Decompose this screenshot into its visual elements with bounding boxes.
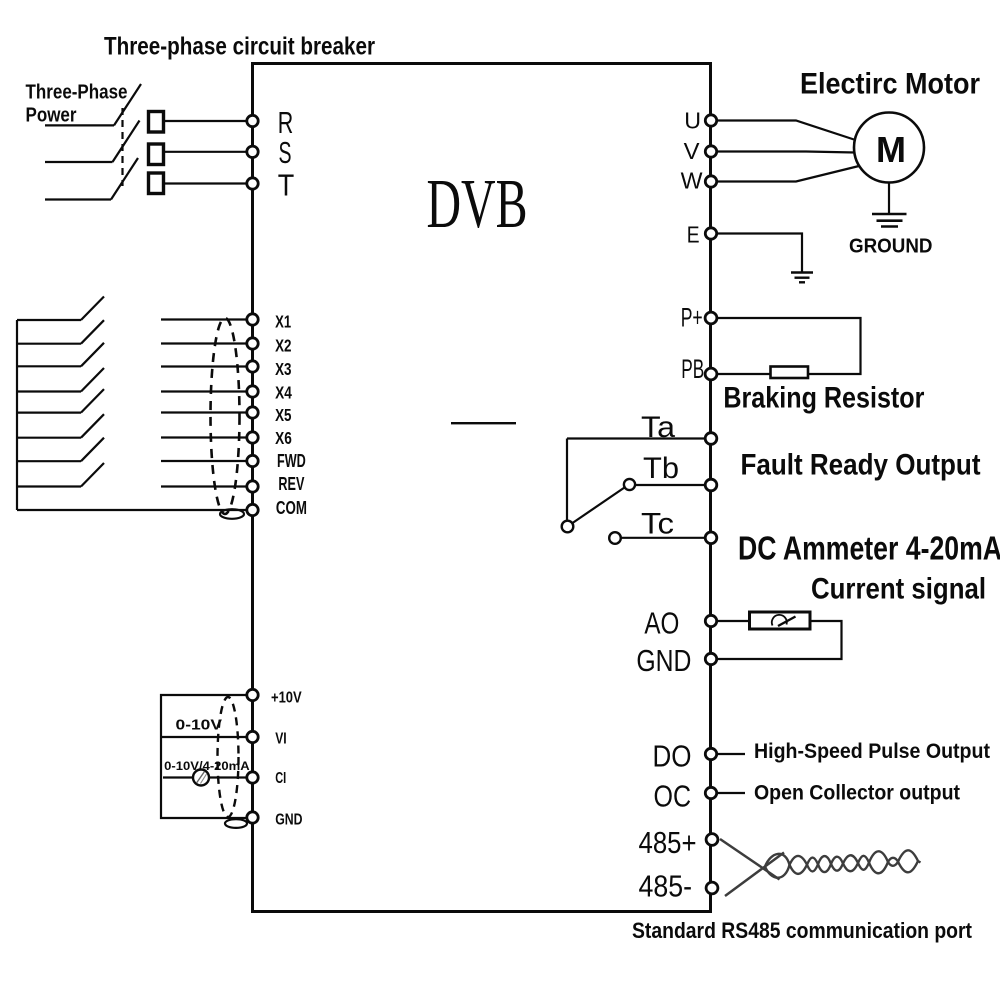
terminal FWD bbox=[247, 455, 258, 466]
svg-text:W: W bbox=[681, 168, 703, 194]
wire X4 feed bbox=[17, 390, 81, 392]
svg-text:0-10V/4-20mA: 0-10V/4-20mA bbox=[164, 759, 250, 773]
terminal 485- bbox=[706, 882, 718, 894]
switch blade REV bbox=[81, 463, 104, 487]
wire X6 to terminal bbox=[161, 436, 246, 438]
wire REV to terminal bbox=[161, 485, 246, 487]
svg-text:DC Ammeter 4-20mA: DC Ammeter 4-20mA bbox=[738, 530, 1000, 567]
svg-text:DO: DO bbox=[653, 740, 692, 774]
svg-text:GND: GND bbox=[636, 644, 691, 678]
wire S feed line bbox=[45, 161, 113, 163]
svg-text:AO: AO bbox=[644, 607, 679, 641]
analog cable dashed ellipse bbox=[218, 697, 239, 817]
terminal X1 bbox=[247, 314, 258, 325]
svg-text:Standard RS485 communication p: Standard RS485 communication port bbox=[632, 918, 973, 943]
switch blade X4 bbox=[81, 368, 104, 392]
terminal Ta bbox=[705, 433, 717, 445]
wire FWD to terminal bbox=[161, 460, 246, 462]
wire X4 to terminal bbox=[161, 390, 246, 392]
svg-text:R: R bbox=[278, 106, 294, 140]
terminal W bbox=[705, 176, 716, 187]
svg-text:V: V bbox=[684, 138, 701, 164]
terminal GND left bbox=[247, 812, 258, 823]
DVB inverter main box bbox=[253, 64, 711, 912]
wire S to terminal bbox=[164, 151, 247, 153]
terminal AO bbox=[705, 615, 716, 626]
motor ground symbol bbox=[872, 214, 907, 227]
terminal X4 bbox=[247, 386, 258, 397]
wire X5 feed bbox=[17, 412, 81, 414]
svg-text:E: E bbox=[687, 222, 700, 248]
svg-text:Tc: Tc bbox=[641, 508, 674, 541]
inverter dash mark bbox=[451, 422, 516, 424]
relay Tc contact circle bbox=[609, 532, 621, 544]
terminal OC bbox=[705, 787, 716, 798]
wire X1 to terminal bbox=[161, 318, 246, 320]
twisted pair wire B bbox=[725, 853, 784, 897]
switch blade X6 bbox=[81, 414, 104, 438]
wire R feed line bbox=[45, 124, 114, 126]
terminal REV bbox=[247, 481, 258, 492]
svg-text:GND: GND bbox=[275, 812, 302, 829]
switch blade FWD bbox=[81, 438, 104, 462]
terminal +10V bbox=[247, 689, 258, 700]
switch blade X2 bbox=[81, 320, 104, 344]
terminal VI bbox=[247, 731, 258, 742]
wire REV feed bbox=[17, 485, 81, 487]
terminal COM bbox=[247, 504, 258, 515]
cable bundle end ellipse bbox=[220, 509, 244, 519]
svg-text:VI: VI bbox=[275, 731, 287, 748]
svg-text:S: S bbox=[279, 136, 292, 170]
ammeter loop wire bbox=[718, 621, 842, 659]
relay Tb contact circle bbox=[624, 479, 635, 490]
svg-text:X3: X3 bbox=[275, 359, 292, 379]
svg-text:PB: PB bbox=[681, 354, 704, 384]
wire COM bottom bbox=[17, 509, 246, 511]
ammeter dial arc bbox=[772, 615, 787, 626]
relay Ta wire bbox=[567, 437, 705, 439]
terminal PB bbox=[705, 368, 717, 380]
svg-text:Tb: Tb bbox=[643, 452, 679, 485]
ammeter body bbox=[750, 612, 811, 629]
breaker switch blade phase T bbox=[111, 158, 138, 200]
potentiometer wiper marks bbox=[197, 772, 205, 784]
wire X2 to terminal bbox=[161, 342, 246, 344]
svg-text:Fault Ready Output: Fault Ready Output bbox=[741, 449, 981, 482]
wire DO stub bbox=[718, 753, 745, 755]
svg-text:REV: REV bbox=[278, 474, 304, 494]
svg-text:P+: P+ bbox=[681, 302, 703, 332]
relay common vertical wire bbox=[566, 439, 568, 521]
terminal Tc bbox=[705, 532, 717, 544]
wire VI bbox=[161, 736, 246, 738]
svg-text:FWD: FWD bbox=[277, 451, 306, 471]
svg-text:CI: CI bbox=[275, 770, 286, 787]
svg-text:Three-phase circuit breaker: Three-phase circuit breaker bbox=[104, 33, 375, 61]
braking resistor loop wire bbox=[718, 318, 861, 374]
breaker contact box R bbox=[149, 112, 164, 133]
wire R to terminal bbox=[164, 120, 247, 122]
svg-text:High-Speed Pulse Output: High-Speed Pulse Output bbox=[754, 739, 990, 763]
svg-text:U: U bbox=[684, 108, 701, 134]
wire X5 to terminal bbox=[161, 411, 246, 413]
terminal GND right bbox=[705, 653, 716, 664]
wire V to motor bbox=[718, 152, 855, 153]
analog cable end ellipse bbox=[225, 819, 247, 828]
ammeter needle bbox=[778, 617, 796, 627]
breaker switch blade phase R bbox=[114, 84, 141, 125]
wire T feed line bbox=[45, 198, 111, 200]
wire Tc bbox=[621, 537, 705, 539]
wire X2 feed bbox=[17, 343, 81, 345]
twisted pair braid bbox=[765, 850, 921, 877]
switch blade X5 bbox=[81, 389, 104, 413]
svg-text:485+: 485+ bbox=[639, 826, 697, 860]
terminal S bbox=[247, 146, 258, 157]
wire X3 to terminal bbox=[161, 365, 246, 367]
terminal U bbox=[705, 115, 716, 126]
terminal 485+ bbox=[706, 834, 718, 846]
terminal X5 bbox=[247, 407, 258, 418]
relay common contact circle bbox=[562, 521, 574, 533]
breaker contact box S bbox=[149, 144, 164, 165]
twisted pair wire A bbox=[720, 839, 780, 880]
svg-text:Braking Resistor: Braking Resistor bbox=[723, 382, 924, 415]
svg-text:Open Collector output: Open Collector output bbox=[754, 782, 960, 805]
terminal V bbox=[705, 146, 716, 157]
breaker linkage dashed line bbox=[121, 108, 123, 186]
svg-text:X1: X1 bbox=[275, 312, 291, 332]
terminal E bbox=[705, 228, 716, 239]
svg-text:+10V: +10V bbox=[271, 690, 302, 707]
wire OC stub bbox=[718, 792, 745, 794]
wire W to motor bbox=[718, 166, 861, 182]
svg-text:Power: Power bbox=[26, 104, 77, 127]
wire T to terminal bbox=[164, 182, 247, 184]
E ground symbol bbox=[791, 273, 813, 283]
svg-text:X2: X2 bbox=[275, 336, 292, 356]
relay blade bbox=[573, 488, 625, 524]
terminal R bbox=[247, 115, 258, 126]
wire CI bbox=[163, 776, 246, 778]
wire U to motor bbox=[718, 121, 857, 141]
svg-text:GROUND: GROUND bbox=[849, 236, 933, 258]
svg-text:485-: 485- bbox=[639, 869, 693, 903]
svg-text:DVB: DVB bbox=[427, 166, 528, 243]
terminal X2 bbox=[247, 338, 258, 349]
terminal CI bbox=[247, 772, 258, 783]
terminal DO bbox=[705, 748, 716, 759]
switch blade X1 bbox=[81, 297, 104, 321]
wire X1 feed bbox=[17, 319, 81, 321]
motor ground wire bbox=[888, 183, 890, 214]
svg-text:Current signal: Current signal bbox=[811, 573, 986, 606]
svg-text:X4: X4 bbox=[275, 382, 292, 402]
svg-text:M: M bbox=[876, 129, 906, 170]
wire FWD feed bbox=[17, 460, 81, 462]
svg-text:OC: OC bbox=[654, 780, 692, 814]
svg-text:T: T bbox=[278, 169, 295, 203]
cable bundle dashed ellipse bbox=[211, 318, 240, 514]
terminal X6 bbox=[247, 432, 258, 443]
wire Tb bbox=[636, 484, 705, 486]
svg-text:Ta: Ta bbox=[641, 411, 675, 444]
svg-text:0-10V: 0-10V bbox=[176, 718, 223, 734]
breaker switch blade phase S bbox=[113, 121, 140, 163]
terminal Tb bbox=[705, 479, 717, 491]
braking resistor body bbox=[771, 367, 809, 379]
switch blade X3 bbox=[81, 343, 104, 367]
motor M circle bbox=[854, 113, 924, 183]
wire X6 feed bbox=[17, 437, 81, 439]
potentiometer circle CI bbox=[193, 770, 209, 786]
svg-text:Electirc Motor: Electirc Motor bbox=[800, 68, 980, 101]
svg-text:X5: X5 bbox=[275, 405, 292, 425]
svg-text:COM: COM bbox=[276, 498, 307, 518]
digital input switch bank left bus bbox=[16, 320, 18, 510]
terminal X3 bbox=[247, 361, 258, 372]
terminal T bbox=[247, 178, 258, 189]
breaker contact box T bbox=[149, 173, 164, 194]
potentiometer box bbox=[161, 695, 246, 818]
svg-text:Three-Phase: Three-Phase bbox=[26, 80, 128, 103]
wire X3 feed bbox=[17, 365, 81, 367]
terminal P+ bbox=[705, 312, 717, 324]
svg-text:X6: X6 bbox=[275, 428, 292, 448]
wire E to ground bbox=[718, 234, 802, 272]
